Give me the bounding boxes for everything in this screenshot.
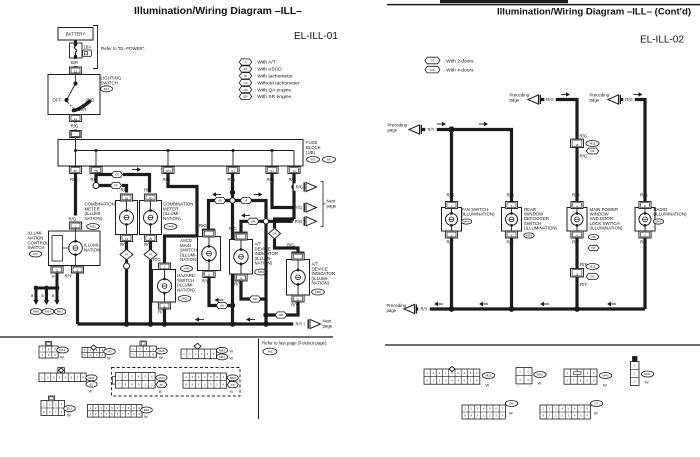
svg-text:M8: M8	[184, 267, 189, 271]
svg-text:W: W	[159, 355, 163, 360]
svg-text:TK: TK	[149, 253, 153, 257]
svg-text:4J: 4J	[292, 169, 296, 173]
svg-text:W: W	[230, 349, 234, 353]
svg-text:M14: M14	[45, 310, 51, 314]
svg-text:R/G: R/G	[625, 97, 632, 102]
svg-text:Illumination/Wiring Diagram –I: Illumination/Wiring Diagram –ILL–	[134, 6, 302, 17]
svg-text:QA: QA	[272, 232, 276, 236]
svg-text:W: W	[645, 380, 649, 385]
svg-text:17N: 17N	[165, 169, 171, 173]
svg-text:W: W	[486, 383, 490, 388]
svg-text:D7: D7	[592, 246, 596, 250]
svg-text:M13: M13	[59, 348, 65, 352]
svg-text:M11: M11	[590, 142, 596, 146]
svg-text:11: 11	[74, 69, 77, 73]
svg-text:W: W	[144, 414, 148, 419]
svg-text:D2: D2	[431, 59, 435, 63]
svg-text:: With 2-doors: : With 2-doors	[444, 58, 474, 64]
svg-text:12: 12	[74, 117, 78, 121]
svg-text:M70: M70	[537, 373, 543, 377]
svg-text:page: page	[387, 308, 397, 313]
svg-text:R/G: R/G	[153, 257, 161, 262]
svg-text:M52: M52	[90, 225, 96, 229]
svg-text:(ILLUMINATION): (ILLUMINATION)	[462, 212, 496, 217]
svg-text:R/Y: R/Y	[296, 322, 303, 327]
svg-text:R/G: R/G	[572, 193, 580, 198]
svg-text:E1: E1	[90, 382, 94, 386]
svg-text:R/Y: R/Y	[421, 307, 428, 312]
svg-text:R/G: R/G	[199, 223, 207, 228]
svg-text:page: page	[327, 203, 337, 208]
svg-text:R0: R0	[149, 196, 153, 200]
svg-text:NATION): NATION)	[312, 281, 330, 286]
svg-text:6J: 6J	[270, 169, 274, 173]
svg-text:W: W	[509, 411, 513, 416]
svg-text:B: B	[230, 389, 233, 394]
svg-text:R/L: R/L	[144, 188, 151, 193]
svg-text:M43: M43	[655, 220, 661, 224]
svg-text:Refer to “EL-POWER”.: Refer to “EL-POWER”.	[101, 46, 145, 51]
svg-text:A6: A6	[220, 304, 224, 308]
svg-text:OFF: OFF	[53, 98, 62, 103]
svg-text:SWITCH: SWITCH	[28, 245, 45, 250]
svg-text:R/G: R/G	[546, 97, 553, 102]
svg-text:R/G: R/G	[296, 185, 303, 190]
svg-text:D6: D6	[510, 402, 514, 406]
svg-text:: With QA engine: : With QA engine	[255, 87, 292, 93]
svg-text:R/G: R/G	[580, 134, 588, 139]
svg-text:R/G: R/G	[580, 154, 588, 159]
svg-text:R/Y: R/Y	[428, 127, 435, 132]
svg-text:8N: 8N	[74, 169, 78, 173]
svg-text:R/G: R/G	[229, 226, 237, 231]
svg-text:W: W	[60, 355, 64, 360]
svg-text:M61: M61	[219, 355, 225, 359]
svg-text:E6: E6	[327, 158, 331, 162]
svg-text:M3: M3	[268, 350, 273, 354]
svg-text:page: page	[590, 97, 600, 102]
svg-text:W: W	[67, 413, 71, 418]
svg-text:W: W	[230, 356, 234, 360]
svg-text:R/Y: R/Y	[65, 274, 72, 279]
svg-text:NATION): NATION)	[177, 287, 195, 292]
svg-text:B: B	[159, 389, 162, 394]
svg-text:W: W	[107, 356, 111, 361]
svg-text:W: W	[594, 411, 598, 416]
svg-text:page: page	[388, 127, 398, 132]
svg-text:R/G: R/G	[507, 193, 515, 198]
svg-text:W: W	[89, 388, 93, 393]
svg-text:: With A/T: : With A/T	[255, 60, 276, 66]
svg-text:SR: SR	[243, 95, 248, 99]
svg-text:R/G: R/G	[69, 217, 77, 222]
svg-text:M40: M40	[158, 376, 164, 380]
svg-text:: With SR engine: : With SR engine	[255, 94, 292, 100]
svg-text:M25: M25	[158, 349, 164, 353]
svg-text:Refer to last page (Foldout pa: Refer to last page (Foldout page).	[262, 341, 328, 346]
svg-text:R/G: R/G	[295, 219, 302, 224]
svg-text:16: 16	[575, 143, 579, 147]
svg-text:: With 4-doors: : With 4-doors	[444, 68, 474, 74]
svg-text:M43: M43	[602, 374, 608, 378]
svg-text:: Without tachometer: : Without tachometer	[255, 80, 300, 86]
svg-text:7N: 7N	[94, 169, 98, 173]
svg-text:D6: D6	[592, 235, 596, 239]
svg-text:R/G: R/G	[295, 205, 302, 210]
svg-text:SR: SR	[253, 297, 258, 301]
svg-text:UR: UR	[279, 313, 284, 317]
svg-text:M7: M7	[33, 252, 38, 256]
svg-text:M2: M2	[107, 350, 112, 354]
svg-text:13: 13	[125, 237, 129, 241]
svg-text:10A: 10A	[84, 45, 92, 50]
svg-text:M3: M3	[311, 158, 316, 162]
svg-text:A5: A5	[218, 199, 222, 203]
svg-text:R/L: R/L	[121, 188, 128, 193]
svg-text:D4: D4	[431, 68, 435, 72]
svg-text:M56: M56	[258, 270, 264, 274]
svg-text:M42: M42	[644, 372, 650, 376]
svg-text:M67: M67	[57, 310, 63, 314]
svg-text:NATION: NATION	[84, 248, 100, 253]
svg-text:W: W	[538, 381, 542, 386]
svg-text:R/G: R/G	[447, 193, 455, 198]
svg-text:R/G: R/G	[71, 124, 78, 129]
svg-text:B: B	[52, 274, 55, 279]
svg-text:M55: M55	[181, 297, 187, 301]
svg-text:(ILLUMINATION): (ILLUMINATION)	[524, 225, 558, 230]
svg-text:M60: M60	[230, 376, 236, 380]
svg-text:A5: A5	[244, 67, 248, 71]
svg-text:SWITCH: SWITCH	[101, 80, 118, 85]
svg-text:M24: M24	[88, 376, 94, 380]
svg-text:NATION): NATION)	[163, 216, 181, 221]
svg-text:page: page	[323, 323, 333, 328]
svg-text:M47: M47	[463, 220, 469, 224]
svg-text:E11: E11	[104, 87, 110, 91]
svg-text:39: 39	[149, 237, 153, 241]
svg-text:D2: D2	[591, 149, 595, 153]
svg-text:: With ASCD: : With ASCD	[255, 67, 283, 73]
svg-text:(ILLUMINATION): (ILLUMINATION)	[590, 225, 624, 230]
svg-text:R/G: R/G	[640, 193, 648, 198]
svg-text:SR: SR	[251, 220, 256, 224]
svg-text:E11: E11	[67, 407, 73, 411]
svg-text:18: 18	[125, 196, 129, 200]
svg-text:R/Y: R/Y	[580, 282, 587, 287]
svg-text:D7: D7	[595, 402, 599, 406]
svg-text:M49: M49	[167, 225, 173, 229]
svg-text:NATION): NATION)	[85, 216, 103, 221]
svg-text:EL-ILL-01: EL-ILL-01	[294, 31, 338, 42]
svg-text:(J/B): (J/B)	[306, 150, 316, 155]
svg-text:M11: M11	[486, 374, 492, 378]
svg-text:M11: M11	[590, 265, 596, 269]
svg-text:M29: M29	[526, 234, 532, 238]
svg-text:W: W	[603, 383, 607, 388]
svg-text:M66: M66	[33, 310, 39, 314]
svg-text:page: page	[510, 97, 520, 102]
svg-text:Illumination/Wiring Diagram –I: Illumination/Wiring Diagram –ILL– (Cont'…	[497, 7, 691, 18]
svg-text:NATION): NATION)	[255, 261, 273, 266]
svg-text:NATION): NATION)	[180, 257, 198, 262]
svg-text:R/G: R/G	[287, 243, 295, 248]
svg-text:M56: M56	[315, 290, 321, 294]
svg-text:5J: 5J	[231, 169, 235, 173]
svg-text:BATTERY: BATTERY	[66, 32, 86, 37]
svg-text:B/R: B/R	[71, 60, 78, 65]
svg-text:TK: TK	[125, 253, 129, 257]
svg-text:(ILLUMINATION): (ILLUMINATION)	[654, 212, 688, 217]
svg-text:D2: D2	[591, 275, 595, 279]
svg-text:: With tachometer: : With tachometer	[255, 74, 294, 80]
svg-text:M59: M59	[219, 349, 225, 353]
svg-text:EL-ILL-02: EL-ILL-02	[640, 35, 684, 46]
svg-text:E10: E10	[144, 408, 150, 412]
